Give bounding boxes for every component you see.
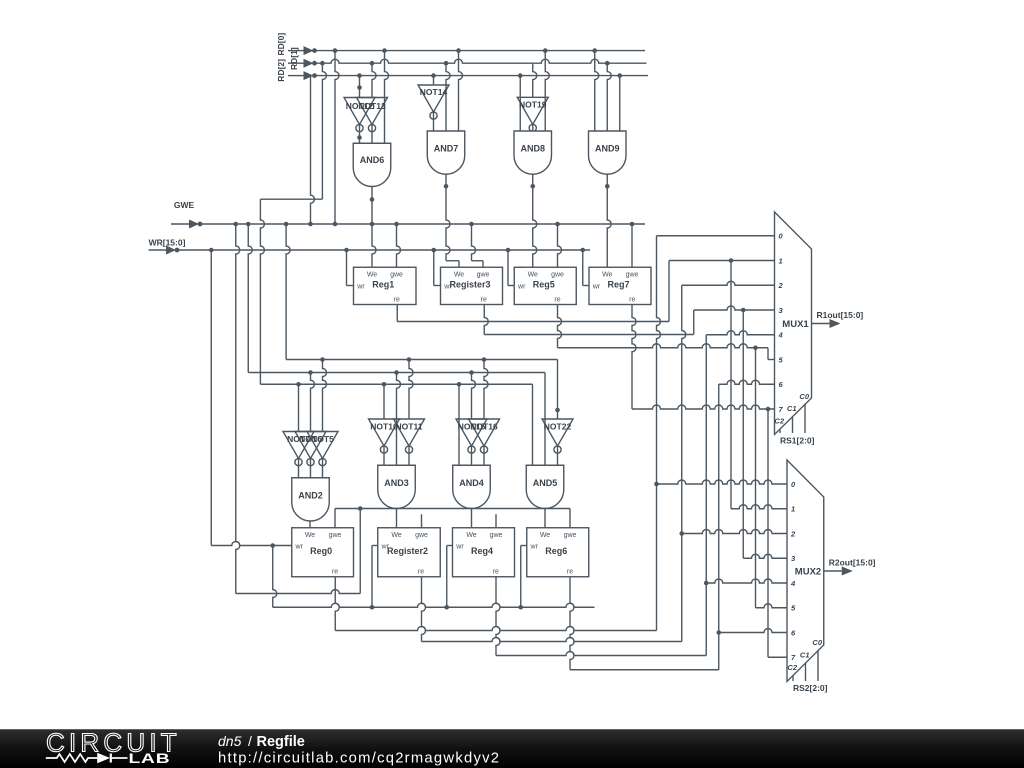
svg-text:re: re [629,296,635,303]
wire NOT22 feed [555,360,560,420]
svg-text:gwe: gwe [415,532,428,539]
wire chan v669 [668,261,670,322]
wire GWE [200,223,645,225]
inverter NOT5 [307,432,338,478]
wire AND5 in M [544,373,546,466]
wire AND8 out [530,174,536,267]
svg-text:NOT11: NOT11 [396,422,423,432]
wire Reg1 wr [347,250,354,286]
wire AND8 in RD0 [545,51,549,131]
wire AND9 in RD2 [619,76,621,131]
svg-text:dn5: dn5 [218,733,242,749]
svg-text:RD[1]: RD[1] [289,47,299,70]
svg-text:MUX2: MUX2 [795,567,821,578]
wire chan v731 (Reg1 net) [730,261,732,509]
wire AND2 nin L [298,384,300,431]
label NOT7/6/5 [287,434,334,444]
and-gate AND4 [453,465,491,508]
input port RD[0] [276,33,317,56]
wire MUX2 in6 [719,629,787,633]
svg-text:re: re [493,569,499,576]
wire Register2 re loop [422,577,682,642]
svg-text:2: 2 [790,529,796,538]
svg-text:We: We [305,532,315,539]
wire AND3 nin R [409,360,413,420]
register Reg7 [589,267,651,304]
and-gate AND7 [427,131,465,174]
svg-text:C0: C0 [799,392,809,401]
svg-text:wr: wr [295,543,304,550]
svg-text:/: / [248,733,252,749]
wire AND3 out [396,509,398,528]
svg-text:We: We [391,532,401,539]
wire gwe chain riser [359,509,361,594]
wire Register3 wr [434,250,441,286]
svg-text:re: re [567,569,573,576]
wire Reg5 re / H3 [558,305,775,360]
svg-text:4: 4 [790,579,796,588]
wire AND4 nin M [472,373,476,420]
wire RD0 drop x335 [335,51,339,224]
wire Reg7 wr [583,250,589,286]
svg-text:C1: C1 [787,404,797,413]
svg-text:gwe: gwe [390,272,403,279]
wire Reg1 gwe chain [397,224,401,267]
wire Reg4 re loop [496,577,706,656]
svg-text:re: re [394,296,400,303]
wire RD2 drop x310.5 [311,76,315,224]
svg-text:gwe: gwe [490,532,503,539]
inverter NOT14 [418,85,449,131]
svg-text:gwe: gwe [329,532,342,539]
svg-text:wr: wr [592,283,601,290]
wire AND4 out [471,509,473,528]
svg-text:R1out[15:0]: R1out[15:0] [817,310,864,320]
svg-text:Reg7: Reg7 [607,280,629,290]
wire MUX1 in3 [694,306,775,312]
label NOT12/NOT13 [346,101,386,111]
svg-text:AND8: AND8 [520,144,545,154]
wire AND8 in RD1 [533,63,537,97]
wire RD1 jog [260,198,322,200]
and-gate AND3 [378,465,416,508]
node RD1 junctions [320,61,609,66]
register Register2 [378,528,441,577]
wire gwe chain left [236,224,240,594]
wire AND5 out [544,509,546,528]
inverter NOT11 [394,419,425,465]
svg-text:C1: C1 [800,651,810,660]
svg-text:RD[2]: RD[2] [276,59,286,82]
svg-text:re: re [418,569,424,576]
svg-text:C2: C2 [774,417,784,426]
svg-text:We: We [602,272,612,279]
input port RD[2] [276,59,317,82]
mux MUX2 [787,460,876,693]
svg-text:Reg6: Reg6 [545,546,567,556]
wire AND2 out [309,521,311,528]
register Reg5 [514,267,576,304]
wire Register3 gwe chain [472,224,484,267]
input port WR[15:0] [149,238,186,255]
svg-text:Reg5: Reg5 [533,280,555,290]
svg-text:We: We [528,272,538,279]
svg-text:AND9: AND9 [595,144,620,154]
wire AND7 in RD2 [433,76,435,85]
wire Reg4 wr [447,546,453,608]
svg-text:AND6: AND6 [360,155,385,165]
wire AND3 nin L [383,384,385,419]
register Reg0 [292,528,354,577]
svg-text:AND5: AND5 [533,478,558,488]
node WR junctions [209,248,585,253]
and-gate AND6 [353,143,391,186]
wire gwe line bottom [335,506,570,528]
inverter NOT16 [469,419,500,465]
wire chan v694 [693,310,695,335]
svg-text:1: 1 [791,505,795,514]
svg-text:AND2: AND2 [298,491,323,501]
wire RD[1] bus [313,59,647,63]
wire AND7 in RD1 [446,63,450,131]
wire wr dist line [273,603,595,609]
wire AND6 in RD2 [357,76,362,98]
svg-text:1: 1 [779,256,783,265]
wire Register2 wr [372,546,378,608]
footer bar [0,728,1024,768]
wire AND6 out [370,187,376,268]
wire MUX2 in7 [768,656,787,658]
wire AND3 in M [397,373,401,466]
svg-text:NOT13: NOT13 [358,101,386,111]
wire AND4 in L [458,384,460,465]
and-gate AND5 [526,465,564,508]
svg-text:Reg1: Reg1 [372,280,394,290]
svg-text:RS1[2:0]: RS1[2:0] [780,436,815,446]
svg-text:Reg4: Reg4 [471,546,493,556]
wire Register2 gwe stub [421,514,423,528]
inverter NOT6 [295,432,326,478]
mux MUX1 [774,212,863,446]
wire wr chain drop [273,546,277,608]
wire AND5 in L [532,384,534,465]
svg-text:We: We [454,272,464,279]
inverter NOT10 [369,419,400,465]
svg-text:wr: wr [530,543,539,550]
svg-text:NOT16: NOT16 [470,422,498,432]
register Reg1 [354,267,417,304]
svg-text:RD[0]: RD[0] [276,33,286,56]
wire MUX2 in4 [706,579,787,583]
svg-text:NOT10: NOT10 [370,422,398,432]
inverter NOT12 [344,98,375,144]
wire AND7 in RD0 [459,51,463,131]
svg-text:NOT19: NOT19 [519,99,547,109]
inverter NOT7 [283,432,314,478]
svg-text:gwe: gwe [626,272,639,279]
register Register3 [441,267,503,304]
svg-text:http://circuitlab.com/cq2rmagw: http://circuitlab.com/cq2rmagwkdyv2 [218,751,500,767]
svg-text:gwe: gwe [551,272,564,279]
wire MUX1 in2 [682,281,775,285]
wire AND9 in RD1 [607,63,611,131]
wire MUX1 in1 [669,258,775,263]
wire MUX2 in0 [657,480,788,484]
inverter NOT19 [517,97,548,131]
wire Reg1 re / H1 [397,305,669,322]
register Reg4 [453,528,515,577]
wire RD[0] bus [313,50,645,52]
wire Reg5 gwe chain [558,224,562,267]
svg-text:GWE: GWE [174,200,195,210]
wire chan v682 (Reg2 net) [679,285,685,641]
wire Register3 re / H2 [484,305,694,335]
svg-text:wr: wr [455,543,464,550]
node RD0 junctions [333,48,597,53]
svg-text:re: re [554,296,560,303]
svg-text:NOT14: NOT14 [420,87,448,97]
inverter NOT22 [542,419,573,465]
input port GWE [171,200,202,229]
svg-text:We: We [540,532,550,539]
wire RD1 drop x322.4 [322,63,326,199]
wire AND4 nin R [484,360,488,420]
svg-text:Register2: Register2 [387,546,428,556]
svg-text:AND3: AND3 [384,478,409,488]
wire MUX2 in5 [756,604,788,608]
svg-text:re: re [332,569,338,576]
wire AND6 in RD0 [385,51,389,144]
register Reg6 [527,528,589,577]
svg-text:gwe: gwe [477,272,490,279]
svg-text:re: re [481,296,487,303]
wire Reg0 re loop [335,577,656,631]
wire GWE chain F1 [286,224,557,362]
wire MUX2 in1 [731,505,787,509]
svg-text:We: We [367,272,377,279]
wire AND9 out [605,174,611,267]
svg-text:R2out[15:0]: R2out[15:0] [829,558,876,568]
wire chan v719 (Reg6 net) [716,384,721,670]
wire chan v656 (Reg0 net) [654,236,660,631]
svg-text:MUX1: MUX1 [782,319,809,330]
and-gate AND2 [292,478,330,521]
wire chan v768 (Reg7 net) [767,409,769,657]
wire MUX1 in6 [719,380,775,384]
wire MUX1 in0 [657,235,775,237]
svg-text:Reg0: Reg0 [310,546,332,556]
wire AND9 in RD0 [595,51,599,131]
wire chan v755 (Reg5 net) [755,348,757,608]
svg-text:LAB: LAB [129,751,171,766]
wire RD1 left drop [260,199,264,384]
svg-text:2: 2 [778,281,784,290]
svg-text:NOT5: NOT5 [311,434,334,444]
wire AND2 nin R [323,360,327,432]
inverter NOT13 [357,98,388,144]
wire Reg0 wr line [211,250,292,548]
wire MUX2 in3 [743,554,787,558]
svg-text:Regfile: Regfile [257,734,305,750]
wire RD[2] bus [313,75,648,77]
wire Reg4 gwe stub [495,514,497,528]
wire Reg5 wr [508,250,514,286]
svg-text:gwe: gwe [564,532,577,539]
node RD2 junctions [357,73,622,78]
wire Reg6 wr [521,546,527,608]
and-gate AND8 [514,131,552,174]
label NOT15/16 [458,422,498,432]
wire Reg6 re loop [570,577,719,670]
svg-text:C2: C2 [787,663,797,672]
svg-text:AND4: AND4 [459,478,484,488]
wire Reg7 gwe chain [631,224,633,267]
svg-text:WR[15:0]: WR[15:0] [149,238,186,248]
svg-text:NOT22: NOT22 [544,422,572,432]
svg-text:wr: wr [517,283,526,290]
wire AND6 in RD1 [372,63,376,97]
input port RD[1] [288,47,317,70]
wire WR [177,249,590,251]
svg-text:We: We [466,532,476,539]
wire chan v743 (Reg3 net) [742,310,744,558]
svg-text:RS2[2:0]: RS2[2:0] [793,683,828,693]
svg-text:Register3: Register3 [449,280,490,290]
svg-text:C0: C0 [812,638,822,647]
node GWE junctions [233,222,634,227]
inverter NOT15 [456,419,487,465]
wire GWE chain F2 [248,224,545,375]
wire Reg7 re / in7 [632,305,775,412]
and-gate AND9 [589,131,627,174]
svg-text:4: 4 [778,331,784,340]
wire RD1 chain F3 [260,382,532,387]
wire AND2 nin M [311,373,315,432]
svg-text:wr: wr [356,283,365,290]
wire AND8 in RD2 [519,76,521,131]
wire AND7 out [444,174,459,267]
label NOT10/11 [370,422,422,432]
wire MUX1 in4 [706,331,774,335]
wire gwe chain bottom [236,590,361,594]
wire MUX2 in2 [682,530,787,534]
wire chan v706 (Reg4 net) [704,335,709,656]
svg-text:AND7: AND7 [434,144,459,154]
